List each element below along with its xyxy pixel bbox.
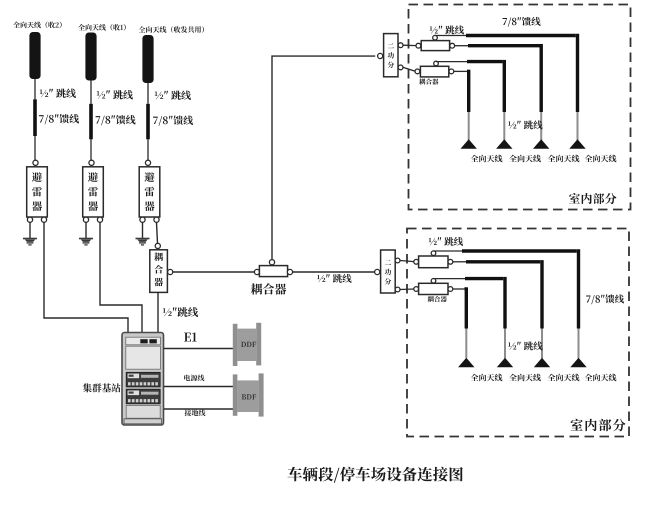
BDF distribution frame xyxy=(233,373,264,416)
ceiling antenna B4 (bottom box) xyxy=(570,358,586,368)
wire/feeder CA-top to antenna A4 xyxy=(435,35,467,37)
wire LA1 to base station xyxy=(44,222,128,332)
ceiling antenna B2 (bottom box) xyxy=(497,358,513,368)
label 室内部分 (bottom box) xyxy=(571,419,626,432)
7/8" feeder cable segment col 1 xyxy=(33,99,37,136)
ceiling antenna A1 (top box) xyxy=(461,139,477,149)
arrester LA2 top terminal xyxy=(89,160,94,165)
label antenna 1 name xyxy=(13,22,62,29)
coupler CC right terminal xyxy=(448,259,453,264)
label 1/2 jumper near antennas (top box) xyxy=(508,120,542,129)
label antenna A3 全向天线 (top box) xyxy=(548,155,580,163)
coupler CA top terminal xyxy=(433,35,438,40)
label antenna B2 全向天线 (bottom box) xyxy=(509,374,541,382)
splitter S2 input terminal xyxy=(375,269,380,274)
wire CP2 up to splitter S1 xyxy=(272,56,375,260)
wire feeder to arrester LA2 xyxy=(90,139,92,160)
wire LA2 to base station xyxy=(100,222,142,332)
coupler CP1 right terminal xyxy=(168,269,173,274)
label BDF xyxy=(242,394,256,399)
wire E1 to DDF xyxy=(164,348,233,350)
coupler CA left terminal xyxy=(416,43,421,48)
label antenna A2 全向天线 (top box) xyxy=(509,155,541,163)
DDF distribution frame xyxy=(233,323,261,366)
lightning arrester LA3 xyxy=(139,167,160,217)
2-way splitter S2 二功分 xyxy=(381,250,396,293)
wire power 电源线 to BDF xyxy=(164,386,233,388)
wire CP2 to splitter S2 xyxy=(293,271,375,273)
7/8" feeder cable segment col 2 xyxy=(89,104,93,140)
label 7/8 feeder (top box) xyxy=(503,17,541,27)
wire ANT1 jumper upper xyxy=(34,79,36,99)
arrester LA1 bottom-left terminal xyxy=(27,217,32,222)
label antenna B4 全向天线 (bottom box) xyxy=(585,374,617,382)
arrester LA1 bottom-right terminal xyxy=(41,217,46,222)
label cabinet 集群基站 xyxy=(83,383,121,392)
wire CP1 to coupler CP2 xyxy=(173,271,257,273)
label CP2 耦合器 xyxy=(251,283,287,294)
title 车辆段/停车场设备连接图 xyxy=(288,467,463,483)
dashed enclosure: indoor part (bottom) xyxy=(407,229,629,437)
coupler CC (bottom box) xyxy=(419,256,448,268)
wire S1 to coupler CB xyxy=(403,67,415,71)
coupler CD top terminal xyxy=(431,279,436,284)
label CB 耦合器 xyxy=(419,79,438,85)
arrester LA3 top terminal xyxy=(145,160,150,165)
ceiling antenna A2 (top box) xyxy=(496,139,512,149)
label antenna A1 全向天线 (top box) xyxy=(471,155,503,163)
lightning arrester LA2 xyxy=(83,167,104,217)
antenna ANT3 (全向天线（收发共用）) xyxy=(142,35,153,83)
2-way splitter S1 二功分 xyxy=(384,34,398,77)
wire ANT3 jumper upper xyxy=(147,83,149,104)
label 1/2 jumper col 3 xyxy=(155,91,191,100)
arrester LA3 bottom-left terminal xyxy=(140,217,145,222)
wire LA3 to coupler CP1 xyxy=(157,222,158,243)
wire feeder to arrester LA1 xyxy=(34,136,36,160)
wire/feeder CC-top to antenna B4 xyxy=(434,250,464,252)
label DDF xyxy=(241,342,256,347)
label S2 二功分 xyxy=(385,260,392,285)
label arrester LA2 避雷器 xyxy=(88,172,98,211)
ceiling antenna B1 (bottom box) xyxy=(458,358,474,368)
wire ANT2 jumper upper xyxy=(90,81,92,104)
ground G2 xyxy=(79,239,93,245)
arrester LA2 bottom-right terminal xyxy=(97,217,102,222)
label 电源线 xyxy=(184,375,204,382)
wire/feeder CC-right to antenna B3 xyxy=(453,261,467,263)
label 1/2 jumper col 1 xyxy=(40,89,76,98)
wire S2 to coupler CD xyxy=(400,288,414,291)
coupler CD right terminal xyxy=(448,287,453,292)
arrester LA3 bottom-right terminal xyxy=(154,217,159,222)
label 1/2 jumper (bottom box) xyxy=(429,237,463,246)
label CP1 耦合器 xyxy=(154,252,163,286)
coupler CC top terminal xyxy=(431,251,436,256)
splitter S1 out1 terminal xyxy=(398,43,403,48)
label 1/2 jumper near antennas (bottom box) xyxy=(508,341,542,350)
label antenna B1 全向天线 (bottom box) xyxy=(471,374,503,382)
coupler CD (bottom box) xyxy=(419,283,448,294)
label 1/2 jumper CP2-S2 xyxy=(317,274,351,283)
coupler CP1 (vertical) xyxy=(150,250,168,293)
base station cabinet 集群基站 xyxy=(122,333,164,426)
wire S2 to coupler CC xyxy=(400,261,414,262)
wire/feeder CB-right to antenna A1 xyxy=(454,70,470,72)
antenna ANT2 (全向天线（收1）) xyxy=(85,33,96,81)
ceiling antenna A3 (top box) xyxy=(533,139,549,149)
dashed enclosure: indoor part (top) xyxy=(409,5,631,210)
coupler CB top terminal xyxy=(434,61,439,66)
wire LA1 to ground xyxy=(29,222,31,238)
label antenna A4 全向天线 (top box) xyxy=(585,155,617,163)
label arrester LA1 避雷器 xyxy=(32,172,42,211)
wire/feeder CD-top to antenna B2 xyxy=(434,278,467,280)
wire CP1 to base station xyxy=(157,292,159,332)
splitter S1 out2 terminal xyxy=(398,65,403,70)
coupler CP1 top terminal xyxy=(155,243,160,248)
label antenna 3 name xyxy=(139,26,204,33)
7/8" feeder cable segment col 3 xyxy=(146,104,150,140)
label CD 耦合器 xyxy=(428,296,447,302)
coupler CP2 top terminal xyxy=(269,260,274,265)
label 1/2 jumper near base station xyxy=(163,307,198,317)
wire LA3 to ground xyxy=(142,222,144,238)
wire S1 to coupler CA xyxy=(403,44,416,46)
wire/feeder CA-right to antenna A3 xyxy=(455,45,469,47)
coupler CP2 right terminal xyxy=(287,269,292,274)
ground G1 xyxy=(23,239,37,245)
label S1 二功分 xyxy=(388,43,395,68)
coupler CA right terminal xyxy=(450,43,455,48)
label 7/8 feeder col 1 xyxy=(39,114,79,124)
label 1/2 jumper (top box) xyxy=(430,25,464,34)
coupler CB left terminal xyxy=(415,69,420,74)
ceiling antenna A4 (top box) xyxy=(569,139,585,149)
label 7/8 feeder (bottom box) xyxy=(586,294,624,304)
label 7/8 feeder col 3 xyxy=(153,116,193,126)
wire feeder to arrester LA3 xyxy=(147,139,149,160)
label 7/8 feeder col 2 xyxy=(96,115,136,125)
antenna ANT1 (全向天线（收2）) xyxy=(29,32,40,79)
splitter S2 out2 terminal xyxy=(395,287,400,292)
coupler CC left terminal xyxy=(414,259,419,264)
arrester LA1 top terminal xyxy=(33,160,38,165)
coupler CD left terminal xyxy=(414,287,419,292)
coupler CB (top box) xyxy=(420,66,448,77)
coupler CP2 (horizontal) xyxy=(259,266,287,277)
ceiling antenna B3 (bottom box) xyxy=(534,358,550,368)
wire ground 接地线 to BDF xyxy=(164,408,233,410)
wire/feeder CD-right to antenna B1 xyxy=(453,288,467,290)
splitter S2 out1 terminal xyxy=(395,258,400,263)
wire/feeder CB-top to antenna A2 xyxy=(436,61,468,63)
lightning arrester LA1 xyxy=(27,167,48,217)
label 室内部分 (top box) xyxy=(569,193,616,204)
wire LA2 to ground xyxy=(85,222,87,238)
label antenna 2 name xyxy=(78,24,126,31)
label arrester LA3 避雷器 xyxy=(145,172,155,211)
label E1 xyxy=(184,333,197,342)
coupler CP2 left terminal xyxy=(254,269,259,274)
coupler CB right terminal xyxy=(449,69,454,74)
label 接地线 xyxy=(185,410,206,417)
splitter S1 input terminal xyxy=(378,53,383,58)
ground G3 xyxy=(136,239,150,245)
label 1/2 jumper col 2 xyxy=(97,90,133,99)
label antenna B3 全向天线 (bottom box) xyxy=(548,374,580,382)
arrester LA2 bottom-left terminal xyxy=(83,217,88,222)
coupler CA (top box) xyxy=(421,41,449,51)
